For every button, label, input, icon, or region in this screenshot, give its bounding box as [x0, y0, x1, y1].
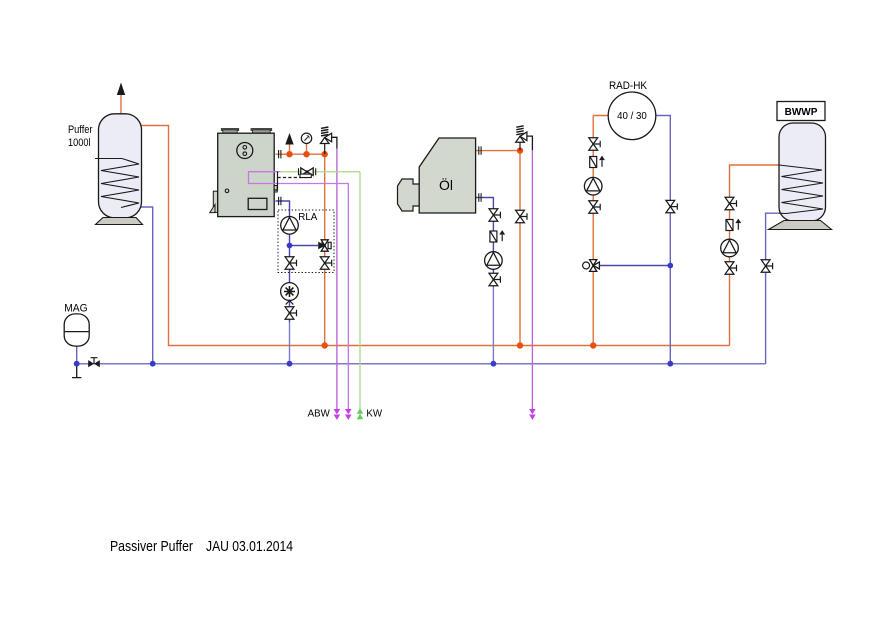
wire orange boiler vent stem [289, 144, 291, 154]
MAG drain tee [72, 364, 81, 378]
arrow ABW 2 [345, 409, 352, 420]
node MAG junction [74, 361, 80, 367]
svg-text:ABW: ABW [308, 408, 331, 419]
valve RAD flow top [589, 138, 600, 150]
check valve RAD flow [590, 156, 605, 168]
RAD-HK circle [608, 92, 656, 140]
MAG expansion vessel [64, 314, 89, 346]
valve oil return top [489, 209, 500, 221]
svg-text:JAU 03.01.2014: JAU 03.01.2014 [206, 538, 293, 555]
node RLA junction [287, 243, 293, 249]
svg-text:BWWP: BWWP [785, 107, 818, 118]
svg-text:Öl: Öl [439, 176, 453, 193]
union boiler flow [279, 150, 281, 158]
svg-text:RAD-HK: RAD-HK [609, 80, 648, 92]
puffer vent arrow [117, 83, 125, 96]
svg-text:RLA: RLA [298, 212, 317, 223]
node RAD return header junction [667, 361, 673, 367]
wire orange oil boiler flow [476, 151, 520, 346]
valve RLA left [285, 257, 296, 269]
valve MAG (filled, horizontal) [88, 358, 100, 368]
wire blue return header [77, 363, 766, 365]
node puffer return junction [150, 361, 156, 367]
wire dashed capillary [278, 177, 310, 179]
union boiler return [279, 197, 281, 205]
valve below heat meter [285, 307, 296, 319]
pump oil return [485, 252, 503, 270]
node boiler flow junction 2 [303, 151, 309, 157]
arrow ABW 1 [334, 409, 341, 420]
boiler body [210, 129, 278, 217]
arrow ABW 3 [529, 409, 536, 420]
arrow KW [357, 408, 364, 419]
node oil return junction [491, 361, 497, 367]
BWWP tank [769, 123, 832, 230]
node oil flow header junction [517, 342, 523, 348]
valve oil flow [516, 210, 527, 222]
svg-text:Puffer: Puffer [68, 124, 93, 136]
node boiler flow junction 1 [286, 151, 292, 157]
wire orange puffer vent stem [120, 94, 122, 114]
svg-text:40 / 30: 40 / 30 [617, 111, 647, 122]
svg-text:Passiver Puffer: Passiver Puffer [110, 538, 193, 555]
pump BWWP flow [721, 239, 739, 257]
wire blue RLA bypass to 3-way valve [290, 245, 319, 247]
svg-text:1000l: 1000l [68, 137, 91, 149]
thermal discharge valve [299, 168, 316, 178]
wire orange flow header [127, 122, 730, 346]
node RLA return junction [287, 361, 293, 367]
safety valve oil boiler [516, 126, 527, 151]
wire blue MAG stem [76, 346, 78, 364]
node RAD flow header junction [590, 342, 596, 348]
valve RLA right [320, 257, 331, 269]
union oil flow [479, 146, 481, 154]
svg-text:MAG: MAG [64, 303, 87, 315]
wire blue boiler return / RLA line [276, 201, 290, 322]
mixer valve RAD [583, 260, 600, 272]
boiler thermal sensor pocket [274, 172, 278, 191]
pump RAD flow [584, 177, 602, 195]
node oil flow junction [517, 147, 523, 153]
node boiler flow header junction [322, 342, 328, 348]
puffer tank [95, 114, 143, 225]
wire orange RAD-HK flow [593, 116, 608, 346]
check valve BWWP flow [726, 219, 741, 231]
3-way valve RLA [319, 240, 331, 251]
wire blue RAD-HK mixer bypass [600, 265, 671, 267]
valve BWWP flow top [725, 197, 736, 209]
svg-text:KW: KW [366, 408, 382, 419]
heat meter [281, 283, 299, 305]
wire orange manometer stem [306, 144, 308, 155]
valve RAD return [666, 200, 677, 212]
wire blue oil boiler return [476, 198, 494, 288]
node RAD bypass junction [667, 263, 673, 269]
valve RAD flow bottom [589, 201, 600, 213]
valve BWWP return [761, 260, 772, 272]
node boiler flow junction 3 [322, 151, 328, 157]
wire purple oil boiler safety discharge ABW [527, 136, 533, 150]
valve BWWP flow bottom [725, 262, 736, 274]
safety valve boiler [320, 127, 331, 154]
wire purple boiler safety discharge ABW [332, 137, 337, 148]
wire orange boiler top line [276, 154, 325, 345]
RLA dotted box [278, 210, 334, 273]
manometer [301, 133, 311, 143]
pump RLA [281, 217, 299, 235]
check valve oil return [490, 230, 505, 242]
union oil return [479, 193, 481, 201]
wire blue RAD-HK return [656, 116, 671, 364]
wire green cold water KW [280, 172, 360, 420]
wire orange BWWP flow [730, 165, 780, 346]
air vent arrow boiler [285, 133, 293, 145]
wire purple thermal discharge ABW [249, 172, 349, 410]
wire blue puffer return [123, 207, 153, 364]
wire blue BWWP return [766, 213, 779, 364]
oil boiler body [398, 138, 476, 213]
BWWP label box [777, 102, 825, 121]
valve oil return bottom [489, 273, 500, 285]
